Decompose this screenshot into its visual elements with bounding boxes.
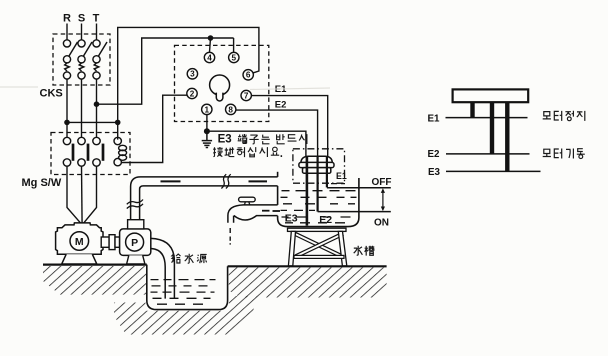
- faucet drip: [229, 228, 231, 245]
- svg-text:E2: E2: [428, 149, 441, 160]
- CKS pole S: terminals, blade, fuse: [78, 40, 92, 79]
- electrode E2 (middle): [317, 157, 319, 212]
- pump top flange: [128, 220, 144, 229]
- svg-text:5: 5: [232, 53, 237, 62]
- level range arrow: [381, 188, 385, 211]
- pit water dashes: [151, 280, 216, 305]
- E1 level line: [446, 117, 528, 119]
- electrode E1 (short): [326, 157, 328, 187]
- svg-text:E1: E1: [336, 171, 347, 181]
- tank left wall segments: [277, 172, 279, 205]
- tank stand cross brace 1: [295, 233, 343, 258]
- label 水槽 glyph 水: [354, 246, 375, 256]
- label 모터기동 glyph 터: [554, 149, 561, 159]
- label 모터기동 glyph 동: [577, 149, 585, 159]
- wire Mg R to motor: [67, 166, 82, 224]
- wire junction down to pin 4: [210, 38, 211, 52]
- tank stand left leg: [288, 231, 295, 266]
- wire pin 7 to E1 electrode lead: [251, 96, 327, 158]
- pump P body: [120, 229, 151, 256]
- label 모터정지 glyph 정: [565, 111, 573, 121]
- node E3 ground junction: [204, 128, 210, 134]
- shaft coupling: [101, 235, 119, 250]
- pump base: [127, 255, 145, 264]
- pin 4: [204, 52, 214, 62]
- note text glyph 地: [225, 147, 235, 156]
- water tank shell: [278, 178, 359, 227]
- electrode E3 (long): [306, 157, 309, 226]
- wire S phase CKS to Mg switch: [81, 79, 83, 137]
- tank stand right leg: [338, 231, 347, 266]
- ground symbol: [202, 131, 212, 147]
- note text glyph 子: [249, 135, 258, 144]
- electrode holder dash-dot box: [293, 149, 345, 183]
- wire coil riser up and over to pin 6: [118, 27, 259, 139]
- node R-phase tap: [64, 120, 70, 126]
- pipe break mark (horizontal run): [221, 174, 230, 188]
- pin 6: [243, 70, 253, 80]
- wire R lead-in: [66, 24, 68, 40]
- Mg contact R: [63, 137, 73, 166]
- socket centre keyhole: [210, 75, 230, 101]
- suction pipe elbow into supply pit: [151, 238, 175, 298]
- hatch right ground block: [229, 268, 387, 298]
- label 給水源 glyph 源: [197, 254, 207, 263]
- pipe water shading: [161, 180, 268, 182]
- Mg contact S: [78, 137, 88, 166]
- wire pin 1 to ground: [206, 115, 208, 132]
- pin 3: [187, 69, 197, 79]
- scan streak artifacts: [0, 87, 330, 90]
- wire E3 to electrode holder: [207, 131, 306, 158]
- svg-text:E1: E1: [428, 114, 441, 125]
- pin 5: [229, 52, 239, 62]
- svg-text:OFF: OFF: [372, 177, 392, 188]
- svg-text:7: 7: [244, 91, 249, 100]
- label 給水源 glyph 給: [172, 254, 207, 263]
- Mg contact T: [93, 137, 103, 166]
- E3 level line: [446, 170, 541, 172]
- svg-text:E2: E2: [275, 100, 287, 111]
- ground surface line (left of pit): [43, 264, 147, 266]
- wire pin 8 to E2 electrode lead: [236, 110, 318, 158]
- note text glyph 십: [248, 147, 256, 157]
- pump circle P: [126, 233, 144, 251]
- label 水槽 glyph 槽: [365, 246, 375, 256]
- svg-text:CKS: CKS: [40, 88, 63, 100]
- pin 7: [241, 90, 251, 100]
- water supply pit walls: [147, 265, 228, 310]
- note text period: [281, 155, 283, 157]
- wire coil bottom to relay pin 2: [121, 95, 187, 162]
- faucet body: [228, 205, 278, 223]
- note text glyph 端: [238, 134, 248, 143]
- note text glyph 반: [277, 134, 285, 144]
- svg-text:E3: E3: [218, 133, 232, 145]
- svg-text:1: 1: [205, 105, 210, 114]
- note text glyph 요: [271, 147, 279, 155]
- motor foot: [62, 254, 97, 264]
- magnetic switch box Mg S/W (dashed): [51, 133, 130, 175]
- knife-switch/fuse box CKS (dashed): [53, 34, 110, 85]
- wire T lead-in: [96, 24, 98, 40]
- pin 2: [187, 88, 197, 98]
- node T-phase tap: [94, 101, 100, 107]
- hatch deep block under pit: [114, 296, 257, 335]
- label 모터정지 glyph 터: [554, 111, 561, 121]
- label 모터정지 glyph 모: [543, 112, 551, 119]
- svg-text:2: 2: [190, 89, 195, 98]
- OFF level line: [327, 187, 391, 189]
- ground surface line (right of pit): [228, 265, 387, 267]
- electrode holder cap: [299, 156, 334, 173]
- svg-text:6: 6: [246, 71, 251, 80]
- motor M body: [56, 223, 103, 254]
- hatch left ground block: [43, 266, 146, 295]
- CKS pole R: terminals, blade, fuse: [63, 40, 77, 79]
- svg-text:P: P: [131, 237, 138, 249]
- svg-text:S: S: [78, 13, 85, 25]
- svg-text:4: 4: [207, 53, 212, 62]
- tank water surface dashes: [281, 184, 357, 223]
- pipe break mark (riser): [127, 200, 143, 209]
- pin 1: [202, 104, 212, 114]
- Mg operating coil: [114, 137, 127, 166]
- note text glyph 드: [288, 135, 297, 141]
- note text glyph 하: [237, 147, 245, 157]
- note text glyph 시: [260, 147, 268, 157]
- note text glyph 接: [213, 147, 223, 157]
- wire T tap to relay pins 4-5 riser: [97, 38, 234, 104]
- wire R tap to coil riser: [67, 121, 118, 123]
- motor circle M: [70, 232, 89, 251]
- wire R phase CKS to Mg switch: [66, 79, 68, 137]
- label 모터기동 glyph 기: [566, 149, 573, 159]
- tank stand cross brace 2: [296, 233, 344, 258]
- svg-text:E2: E2: [319, 214, 332, 226]
- wire T phase CKS to Mg switch: [96, 79, 98, 137]
- faucet handle: [239, 197, 256, 205]
- relay socket box U1 (dashed): [175, 45, 269, 121]
- node pins 4-5 junction: [208, 35, 214, 41]
- svg-text:3: 3: [190, 70, 195, 79]
- tank stand lower bar: [294, 255, 344, 258]
- pin 8: [226, 104, 236, 114]
- electrode bar E2 (middle): [490, 102, 494, 154]
- wire S lead-in: [81, 24, 83, 40]
- ON level line: [318, 211, 391, 213]
- wire Mg T to motor: [82, 166, 96, 224]
- faucet interior shading: [262, 210, 280, 212]
- discharge pipe riser and horizontal run to tank: [131, 177, 278, 220]
- wire Mg S to motor: [81, 166, 84, 224]
- electrode holder bar (right diagram): [453, 89, 529, 102]
- label 모터정지 glyph 지: [577, 111, 585, 121]
- svg-text:8: 8: [228, 105, 233, 114]
- svg-text:R: R: [63, 13, 71, 25]
- tank stand top plate: [288, 228, 347, 231]
- electrode bar E1 (short): [470, 102, 474, 118]
- label 모터기동 glyph 모: [543, 149, 551, 156]
- note text glyph 시: [299, 134, 307, 144]
- wire riser to pin 5: [233, 38, 235, 52]
- CKS pole T: terminals, blade, fuse: [93, 40, 107, 79]
- svg-text:T: T: [93, 13, 100, 25]
- note text glyph 는: [262, 135, 270, 144]
- electrode bar E3 (long): [505, 102, 509, 171]
- svg-text:M: M: [75, 236, 84, 248]
- node coil riser junction: [115, 120, 121, 126]
- svg-text:E3: E3: [285, 212, 298, 224]
- label 給水源 glyph 水: [185, 254, 194, 263]
- svg-text:E3: E3: [428, 167, 441, 178]
- svg-text:Mg S/W: Mg S/W: [22, 177, 62, 189]
- svg-text:ON: ON: [374, 218, 389, 229]
- E2 level line: [446, 153, 530, 155]
